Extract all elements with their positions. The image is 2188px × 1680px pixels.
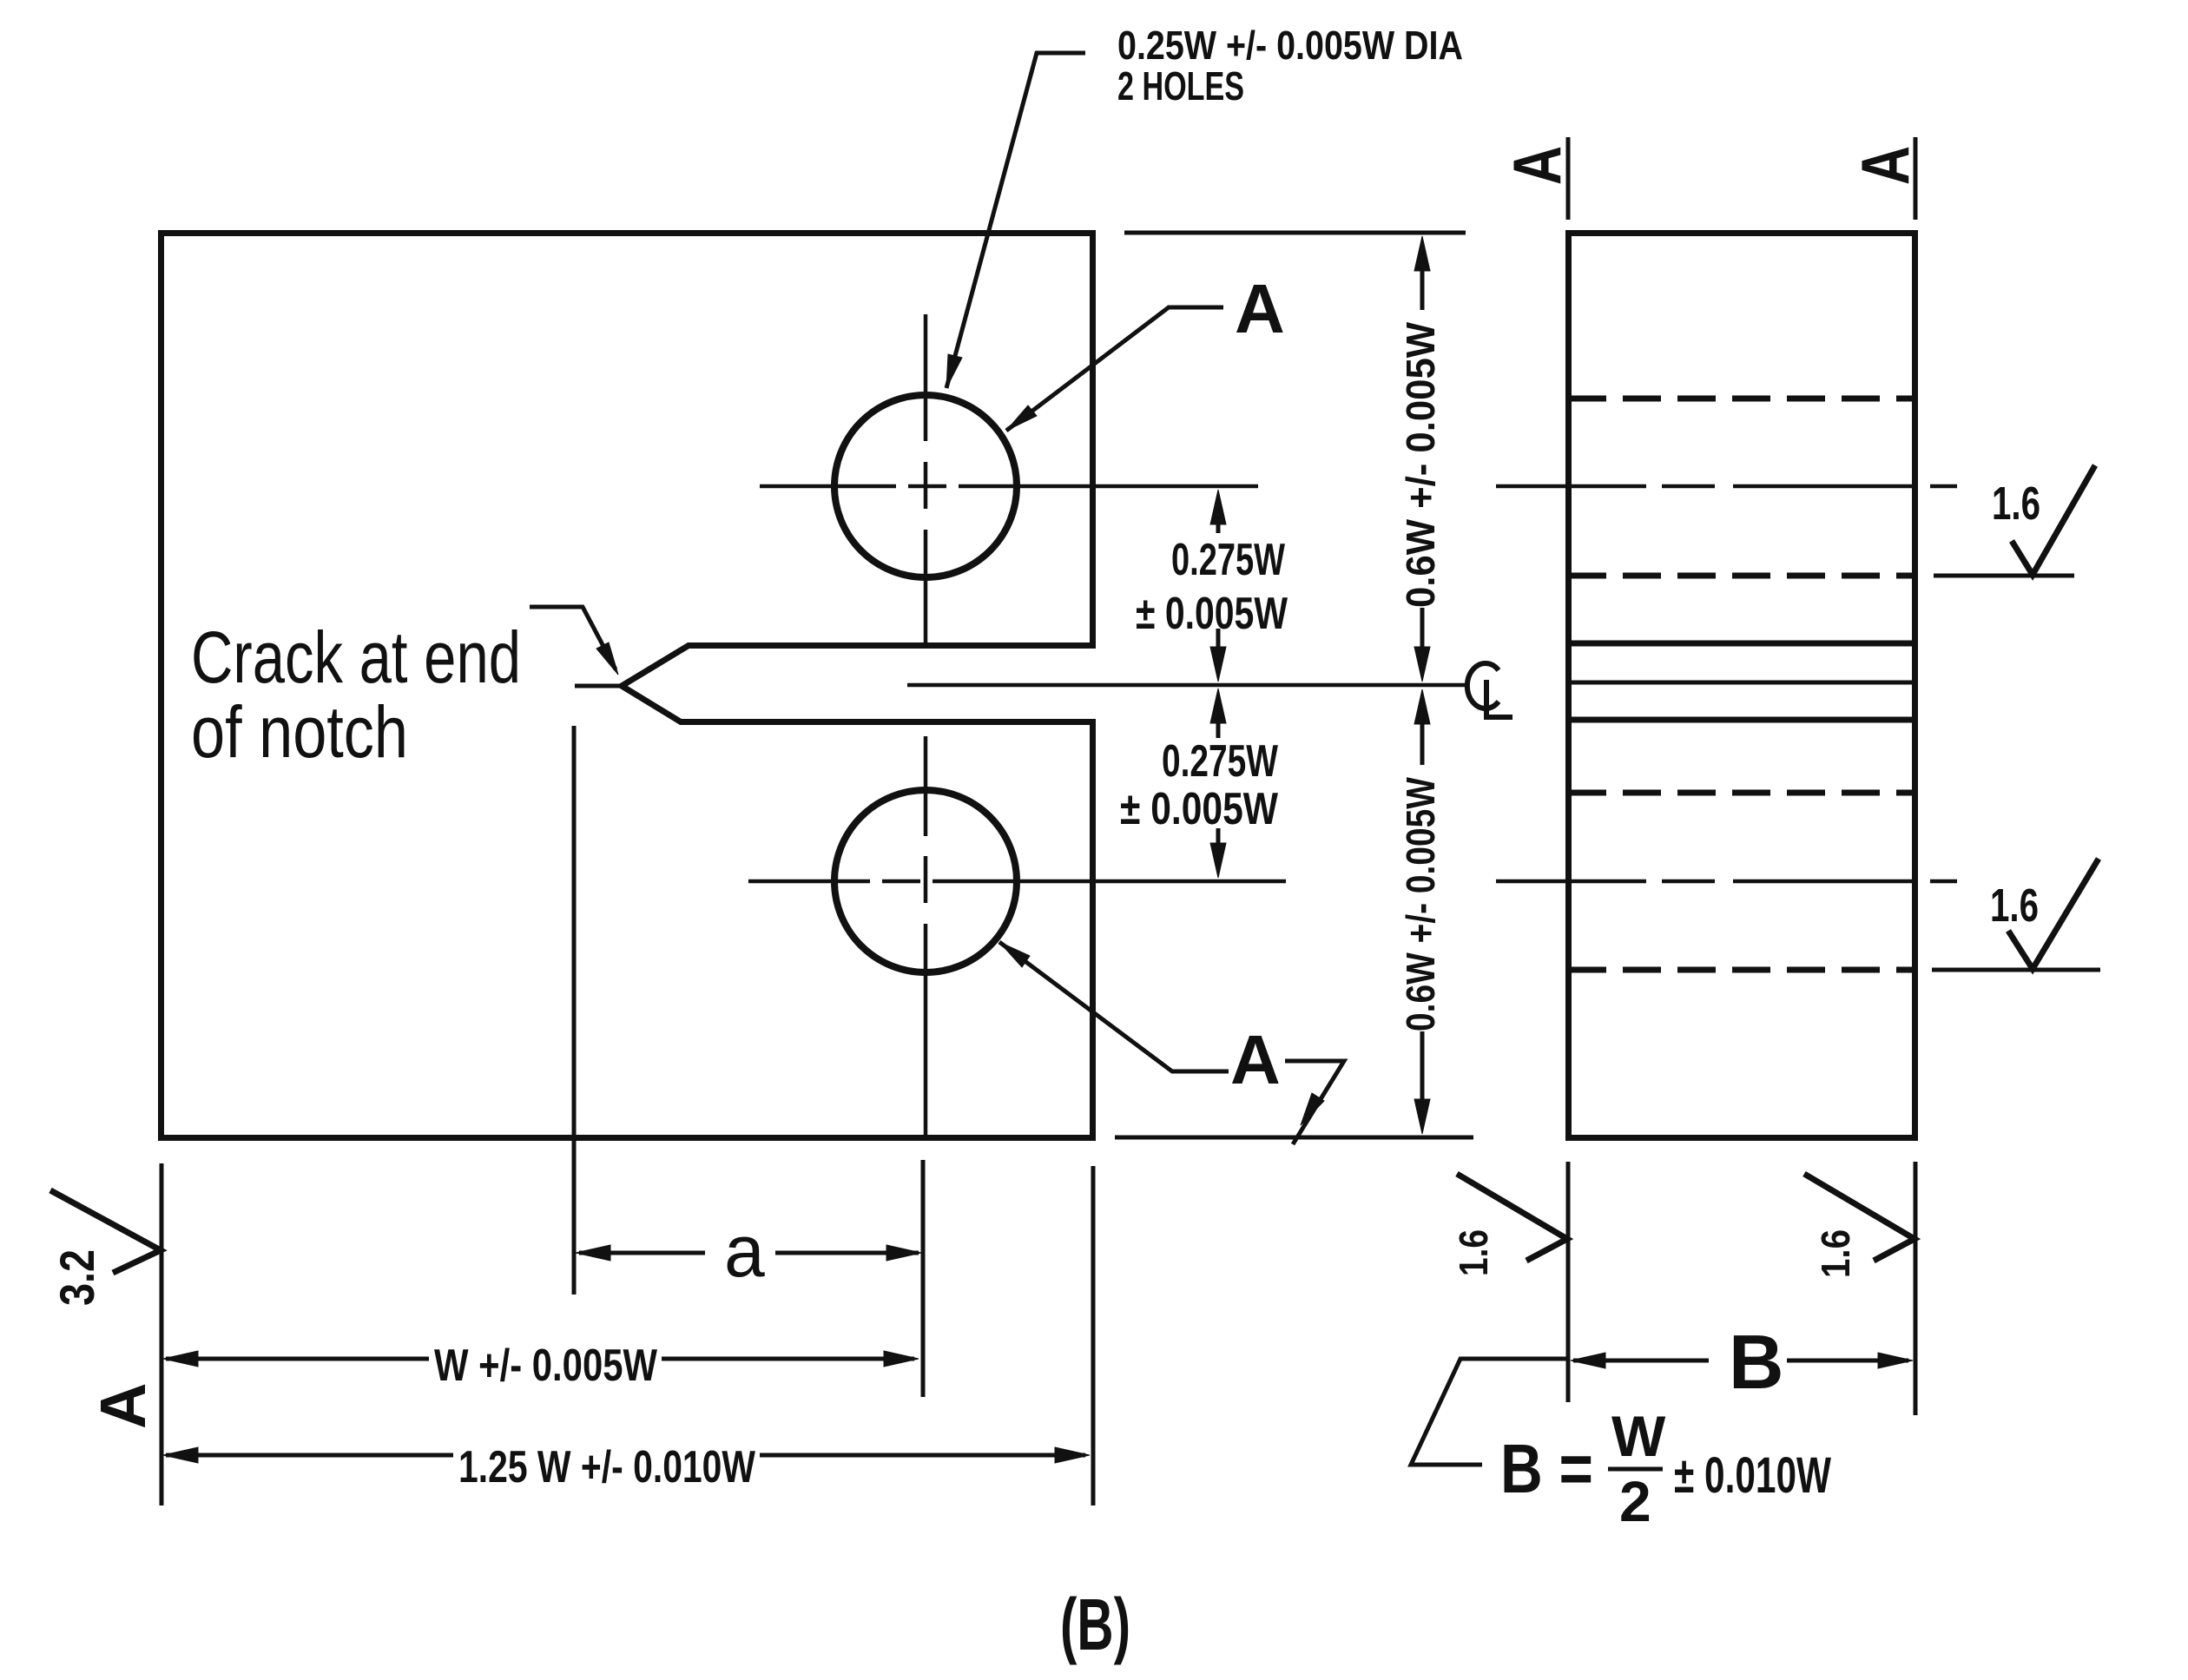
center line bottom hole side view — [1496, 880, 1957, 884]
dimension 0.275W upper — [1216, 524, 1221, 648]
surface finish 1.6 below side view right — [1804, 1174, 1914, 1261]
fraction bar of B = W/2 — [1608, 1467, 1663, 1472]
hidden line hole top edge — [1568, 396, 1915, 402]
extension line hole center — [921, 1160, 926, 1397]
svg-text:± 0.010W: ± 0.010W — [1674, 1447, 1831, 1504]
dimension B — [1573, 1359, 1908, 1363]
svg-text:0.275W: 0.275W — [1162, 736, 1279, 787]
svg-text:1.6: 1.6 — [1992, 478, 2040, 530]
centerline vertical of bottom hole — [924, 736, 928, 1141]
svg-text:a: a — [724, 1210, 765, 1292]
extension line finish upper right — [1934, 574, 2074, 578]
center line top hole side view — [1496, 484, 1957, 489]
svg-text:3.2: 3.2 — [49, 1249, 104, 1306]
svg-text:1.6: 1.6 — [1451, 1229, 1496, 1276]
notch top edge side view — [1568, 641, 1915, 647]
svg-text:1.25 W +/- 0.010W: 1.25 W +/- 0.010W — [458, 1442, 756, 1492]
section arrow flag — [1285, 1061, 1344, 1144]
hidden line hole top edge (bottom hole) — [1568, 790, 1915, 796]
side view outline — [1569, 234, 1915, 1138]
svg-text:B =: B = — [1500, 1430, 1593, 1507]
dimension 0.6W upper — [1420, 271, 1425, 648]
svg-text:0.6W +/- 0.005W: 0.6W +/- 0.005W — [1398, 321, 1443, 608]
svg-text:0.6W +/- 0.005W: 0.6W +/- 0.005W — [1398, 777, 1443, 1031]
svg-text:2 HOLES: 2 HOLES — [1117, 63, 1244, 109]
dimension a — [579, 1251, 919, 1255]
leader B formula — [1411, 1359, 1568, 1465]
section plane tick right — [1914, 137, 1918, 220]
specimen front-view outline with notch — [161, 234, 1093, 1138]
dimension 0.275W lower — [1216, 722, 1221, 844]
surface finish 1.6 below side view left — [1457, 1174, 1567, 1261]
dimension W +/- 0.005W — [166, 1357, 914, 1361]
surface finish 1.6 right lower — [2008, 859, 2099, 969]
leader 0.25W dia holes — [946, 53, 1085, 388]
hidden line hole bottom edge (top hole) — [1568, 573, 1915, 579]
notch bottom edge side view — [1568, 717, 1915, 723]
svg-text:Crack at end: Crack at end — [191, 616, 521, 698]
crack at end of notch — [575, 684, 623, 688]
extension line bottom edge right — [1115, 1136, 1473, 1140]
svg-text:A: A — [87, 1383, 159, 1429]
surface finish 3.2 left — [50, 1190, 161, 1273]
hidden line hole bottom edge (bottom hole) — [1568, 967, 1915, 973]
dimension 1.25 W +/- 0.010W — [166, 1453, 1085, 1458]
svg-text:A: A — [1847, 146, 1923, 185]
crack plane side view — [1568, 681, 1915, 685]
svg-text:± 0.005W: ± 0.005W — [1120, 784, 1279, 834]
extension line side bottom left — [1566, 1162, 1571, 1402]
hole (bottom) — [834, 790, 1017, 972]
CL symbol — [1467, 663, 1499, 708]
svg-text:W: W — [1611, 1404, 1666, 1468]
svg-text:1.6: 1.6 — [1813, 1229, 1858, 1278]
dimension 0.6W lower — [1420, 723, 1425, 1100]
centerline horizontal of bottom hole — [748, 880, 1286, 884]
centerline vertical of top hole — [924, 314, 928, 648]
extension line side bottom right — [1914, 1162, 1918, 1415]
hole (top) — [834, 395, 1017, 577]
svg-text:(B): (B) — [1060, 1584, 1130, 1665]
svg-text:± 0.005W: ± 0.005W — [1136, 589, 1288, 639]
leader datum A top — [1006, 307, 1223, 431]
svg-text:of notch: of notch — [191, 691, 408, 773]
svg-text:B: B — [1729, 1319, 1784, 1405]
surface finish 1.6 right upper — [2012, 465, 2095, 575]
svg-text:W +/- 0.005W: W +/- 0.005W — [434, 1341, 658, 1391]
extension line finish lower right — [1932, 968, 2100, 972]
svg-text:0.25W +/- 0.005W DIA: 0.25W +/- 0.005W DIA — [1117, 23, 1463, 68]
leader datum A bottom — [999, 942, 1229, 1071]
extension line left edge — [160, 1163, 164, 1505]
svg-text:A: A — [1230, 1021, 1281, 1098]
svg-text:A: A — [1235, 270, 1285, 347]
svg-text:0.275W: 0.275W — [1171, 535, 1286, 585]
centerline horizontal of top hole — [760, 484, 1258, 489]
extension line top edge right — [1124, 231, 1466, 235]
leader crack note — [530, 607, 616, 669]
extension line right edge — [1091, 1166, 1096, 1505]
svg-text:2: 2 — [1619, 1469, 1651, 1533]
extension line crack end — [572, 726, 577, 1295]
svg-text:1.6: 1.6 — [1990, 880, 2039, 932]
section plane tick left — [1566, 137, 1571, 220]
svg-text:A: A — [1499, 146, 1575, 185]
specimen centre line CL — [907, 683, 1466, 688]
